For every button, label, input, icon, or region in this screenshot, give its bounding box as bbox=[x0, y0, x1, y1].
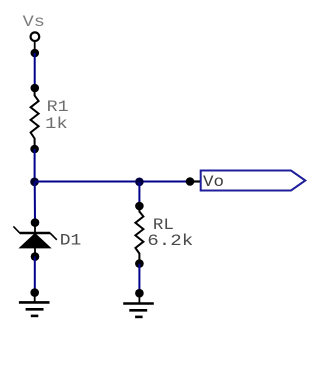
wire terminal stem bbox=[34, 42, 36, 51]
ground (left) bbox=[19, 293, 50, 316]
junction dot above right ground bbox=[135, 289, 144, 298]
terminal Vs (open circle) bbox=[31, 32, 40, 41]
svg-text:Vs: Vs bbox=[23, 13, 45, 31]
junction dot top of D1 bbox=[31, 218, 40, 227]
junction dot top of R1 bbox=[31, 84, 40, 93]
wire D1 to ground bbox=[34, 257, 36, 293]
ground (right) bbox=[123, 293, 154, 317]
output flag Vo bbox=[201, 171, 306, 191]
wire RL to ground bbox=[138, 264, 140, 293]
wire node A to RL bbox=[138, 182, 140, 206]
node A junction dot bbox=[30, 178, 39, 187]
zener diode D1 bbox=[13, 223, 56, 257]
svg-text:1k: 1k bbox=[45, 115, 68, 133]
junction dot bottom of D1 bbox=[31, 252, 40, 261]
wire Vs to R1 bbox=[34, 53, 36, 88]
svg-text:Vo: Vo bbox=[203, 173, 224, 191]
resistor RL bbox=[135, 206, 143, 264]
junction dot top of RL bbox=[135, 202, 144, 211]
svg-text:R1: R1 bbox=[47, 98, 69, 116]
wire node A to D1 bbox=[34, 182, 36, 223]
svg-text:6.2k: 6.2k bbox=[147, 232, 193, 250]
junction dot below terminal bbox=[31, 49, 40, 58]
svg-text:D1: D1 bbox=[60, 231, 82, 249]
junction dot at output Vo bbox=[186, 177, 195, 186]
wire output dot to flag bbox=[192, 180, 201, 182]
junction dot bottom of RL bbox=[135, 259, 144, 268]
wire R1 to node A bbox=[34, 149, 36, 182]
junction dot above left ground bbox=[30, 288, 39, 297]
junction dot RL tap on node A wire bbox=[135, 178, 144, 187]
junction dot bottom of R1 bbox=[30, 145, 39, 154]
wire node A to output (horizontal) bbox=[35, 181, 201, 183]
resistor R1 bbox=[31, 88, 39, 149]
